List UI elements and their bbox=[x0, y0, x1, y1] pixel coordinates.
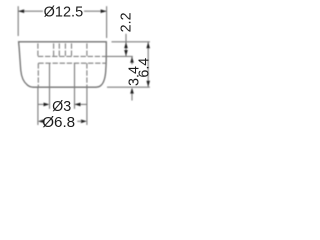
hidden line: inner vertical B bbox=[58, 43, 60, 56]
hidden line: lower wall far right bbox=[86, 63, 88, 87]
dimension Ø12.5 extension line right bbox=[106, 6, 108, 38]
arrowhead 2.2 bottom bbox=[124, 50, 128, 56]
hidden line: inner vertical C bbox=[64, 43, 66, 56]
dimension line 3.4 lower tail bbox=[131, 92, 133, 101]
dimension leader 2.2 bbox=[125, 34, 127, 57]
arrowhead left of Ø12.5 bbox=[18, 9, 24, 13]
dimension Ø12.5 extension line left bbox=[17, 6, 19, 36]
arrowhead Ø6.8 left bbox=[38, 120, 44, 124]
hidden line: lower wall far left bbox=[37, 63, 39, 87]
svg-text:6.4: 6.4 bbox=[136, 58, 152, 78]
arrowhead 3.4 bottom bbox=[130, 88, 134, 94]
arrowhead 6.4 top bbox=[146, 42, 150, 48]
hidden line: inner vertical D bbox=[71, 43, 73, 56]
hidden line: top cavity wall right bbox=[86, 43, 88, 56]
extension line Ø6.8 right bbox=[86, 87, 88, 125]
svg-text:Ø3: Ø3 bbox=[52, 99, 71, 115]
svg-text:Ø6.8: Ø6.8 bbox=[42, 114, 75, 131]
arrowhead 6.4 bottom bbox=[146, 81, 150, 87]
arrowhead 2.2 top bbox=[124, 42, 128, 48]
dimension Ø3 right arrow tail bbox=[75, 103, 87, 105]
arrowhead right of Ø12.5 bbox=[101, 9, 107, 13]
hidden line: top cavity wall left bbox=[37, 43, 39, 56]
hidden line: shelf lower bbox=[38, 62, 106, 64]
extension line Ø6.8 left bbox=[37, 87, 39, 125]
dimension Ø6.8 line segment bbox=[77, 120, 81, 122]
hidden line: inner vertical A bbox=[53, 43, 55, 56]
cap body outline bbox=[19, 42, 107, 87]
arrowhead Ø6.8 right bbox=[81, 120, 87, 124]
dimension line 6.4 bbox=[147, 42, 149, 87]
extension line Ø3 left (also hidden hole wall) bbox=[49, 63, 51, 109]
svg-text:2.2: 2.2 bbox=[119, 12, 135, 32]
arrowhead 3.4 top bbox=[130, 57, 134, 63]
extension line bottom right bbox=[107, 86, 150, 88]
extension line step right bbox=[106, 55, 133, 57]
arrowhead Ø3 left bbox=[44, 103, 50, 107]
extension line top right bbox=[112, 41, 150, 43]
dimension Ø3 left arrow tail bbox=[38, 103, 44, 105]
arrowhead Ø3 right bbox=[75, 103, 81, 107]
extension line Ø3 right (also hidden hole wall) bbox=[74, 63, 76, 109]
dimension Ø12.5 line right segment bbox=[84, 10, 107, 12]
svg-text:Ø12.5: Ø12.5 bbox=[44, 5, 84, 21]
dimension Ø12.5 line left segment bbox=[18, 10, 43, 12]
dimension line 3.4 upper stub bbox=[131, 57, 133, 65]
hidden line: shelf upper bbox=[38, 55, 106, 57]
